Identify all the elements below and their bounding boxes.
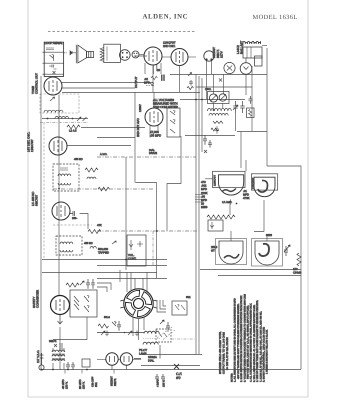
svg-text:250: 250	[72, 217, 77, 220]
tube socket V1	[120, 50, 131, 61]
svg-text:2ND DET.: 2ND DET.	[163, 44, 176, 48]
tube shield U1 keyhole	[219, 175, 244, 205]
tube shield U2 box	[251, 174, 277, 190]
wire dashdot y231	[97, 230, 200, 232]
wire y127	[81, 127, 145, 129]
junction dots	[58, 99, 214, 261]
svg-text:400 VOLT PAPER AND BODY TYPES: 400 VOLT PAPER AND BODY TYPES UNLESS OTH…	[237, 303, 240, 379]
wire left vertical x41	[40, 76, 42, 369]
svg-text:50L6: 50L6	[104, 316, 110, 319]
wire vertical x126	[125, 157, 127, 270]
svg-text:DRIVE: DRIVE	[149, 152, 157, 155]
wire bus x199	[198, 76, 200, 354]
resistor R5	[85, 168, 98, 172]
wire V6 plate right	[67, 145, 131, 147]
resistor R14 vertical	[297, 253, 301, 266]
trimmer box	[208, 92, 230, 104]
wire bottom bus y369	[41, 369, 301, 371]
oscillator coil L2	[207, 108, 231, 115]
svg-text:MODEL 1636L: MODEL 1636L	[253, 14, 298, 21]
AC plug P1	[39, 353, 44, 370]
volume control box	[127, 235, 146, 266]
wire U4 up	[266, 234, 268, 241]
capacitor at V10	[70, 211, 78, 219]
wire drops from V3 V4	[145, 63, 224, 99]
tube V4 6SQ7	[162, 49, 196, 66]
label cluster heater string	[139, 348, 157, 363]
dial lamp V13	[118, 353, 141, 370]
dial cord dashed diagonals	[157, 327, 175, 340]
label stubs	[65, 370, 114, 374]
svg-text:455 KC: 455 KC	[84, 242, 93, 245]
wire U3 up	[230, 231, 232, 241]
svg-text:CONTROL OUT: CONTROL OUT	[35, 73, 39, 94]
svg-text:117 V.A.C.: 117 V.A.C.	[36, 350, 40, 363]
wire dashdot vertical x153	[152, 231, 154, 266]
IF transformer box IF1	[53, 164, 79, 191]
svg-text:RECT.: RECT.	[114, 378, 117, 386]
arrows on row	[77, 117, 87, 121]
svg-text:L2 4.5: L2 4.5	[69, 130, 77, 133]
wire jog 135-157	[136, 183, 157, 279]
svg-text:.05 MFD: .05 MFD	[150, 133, 161, 137]
labels power	[62, 379, 86, 389]
svg-text:LOOP AERIAL: LOOP AERIAL	[45, 41, 64, 45]
svg-text:150 V.: 150 V.	[163, 379, 166, 387]
wire U2 down	[254, 200, 264, 232]
tube V5 rectifier small	[204, 51, 214, 74]
output transformer T1 box	[104, 44, 121, 62]
tube V9 1st audio	[44, 77, 62, 95]
svg-text:4 MFD: 4 MFD	[157, 379, 160, 387]
coil L8	[143, 342, 158, 344]
filter choke L7	[144, 331, 159, 333]
svg-text:150 V.: 150 V.	[66, 381, 69, 389]
tube socket V2	[132, 51, 139, 58]
svg-text:12SA7GT: 12SA7GT	[30, 139, 34, 152]
junction dots power	[41, 369, 88, 371]
tube V11 beat osc	[51, 296, 70, 315]
speaker SP1	[71, 45, 94, 64]
svg-text:150 V.: 150 V.	[83, 381, 86, 389]
svg-text:B+ 105 V. AT 50 MA. DRAIN: B+ 105 V. AT 50 MA. DRAIN	[226, 337, 229, 370]
heater row arrows	[97, 331, 160, 359]
capacitor C1	[64, 52, 67, 54]
wires into socket	[127, 272, 147, 340]
dashdot y339	[171, 338, 196, 340]
mid components below V3	[146, 65, 164, 87]
box around U3	[216, 239, 247, 265]
tube shield U2 keyhole	[254, 177, 275, 197]
wire V11 to bus	[59, 327, 61, 370]
svg-text:6SK7GT: 6SK7GT	[35, 195, 39, 206]
dashed vertical left x44	[43, 123, 45, 259]
resistor R7 osc	[211, 128, 218, 131]
brace for color code	[262, 355, 264, 364]
cluster below V4	[187, 73, 193, 90]
svg-text:6. USE OF OTHER TUBES MAY CAUS: 6. USE OF OTHER TUBES MAY CAUSE DAMAGE T…	[256, 300, 259, 382]
wires osc to keyholes	[236, 113, 268, 168]
capacitor right	[284, 246, 288, 256]
svg-text:OUTPUT: OUTPUT	[134, 76, 138, 88]
wire into U1 box	[205, 160, 246, 179]
wire bus y339	[53, 317, 87, 340]
padder caps C9 C10	[233, 101, 245, 113]
wire multi bus x196-203	[195, 74, 197, 354]
pot arrow	[80, 281, 84, 285]
svg-text:2ND DET AVC: 2ND DET AVC	[136, 118, 140, 137]
wire V11 down arrow	[58, 315, 63, 325]
dashed link y225	[53, 224, 92, 226]
wire V6 top to comb	[245, 58, 247, 63]
svg-text:OSC.: OSC.	[205, 88, 212, 91]
tube V6 ballast	[240, 63, 252, 95]
coil L5	[87, 177, 96, 179]
wire bus y265	[97, 265, 167, 267]
bus ticks	[195, 195, 203, 203]
wire y188	[53, 188, 153, 190]
junction dots under U1	[236, 203, 238, 205]
IF transformer box IF2	[56, 236, 82, 255]
box fuse	[82, 359, 90, 367]
label cluster right of V7	[150, 98, 178, 137]
label vol	[98, 247, 137, 261]
svg-text:RECT.: RECT.	[49, 340, 57, 343]
wire top bus y74	[170, 74, 267, 76]
wire right elbow to x301	[267, 166, 301, 369]
power transformer T2	[52, 343, 65, 369]
loop antenna box L1	[43, 42, 64, 76]
wire ballast to right bus	[262, 45, 267, 47]
wire staircase right	[167, 136, 181, 231]
wire bus y92	[62, 92, 200, 94]
filter caps C20	[66, 362, 75, 370]
wire y87	[196, 86, 252, 88]
coil primary L3	[44, 110, 63, 112]
label cluster under V3	[134, 68, 161, 88]
capacitor C11	[249, 96, 253, 104]
wire V9 right lower	[62, 87, 135, 89]
svg-text:GT: GT	[211, 249, 215, 253]
wire socket to V3	[139, 54, 144, 56]
resistor R6	[98, 187, 109, 191]
svg-text:470K: 470K	[243, 196, 250, 200]
caps cluster	[86, 279, 95, 289]
svg-text:ALDEN, INC: ALDEN, INC	[143, 14, 189, 21]
label vertical 6SA7	[212, 47, 224, 58]
wire bus y269	[200, 269, 301, 271]
label between U1 U2	[243, 189, 250, 200]
svg-text:BALLAST: BALLAST	[240, 41, 244, 54]
box around U4	[252, 239, 283, 267]
svg-text:CONT.: CONT.	[128, 257, 137, 261]
svg-text:1. ALL RESISTORS ARE 1/2 WATT: 1. ALL RESISTORS ARE 1/2 WATT AND IN OHM…	[234, 298, 237, 382]
socket S1 octal	[120, 289, 157, 318]
label line cord	[236, 41, 244, 54]
wire row y118.5	[42, 118, 88, 120]
wire arrow to speaker	[70, 51, 76, 55]
switch box SW1	[70, 290, 97, 317]
output tube U4 keyhole	[255, 241, 279, 265]
NOTES block rotated	[231, 294, 269, 382]
trimmer cap TC1	[209, 94, 226, 108]
wire V10 right	[80, 214, 89, 230]
scattered tiny labels	[72, 88, 272, 319]
dotted link under choke	[143, 338, 161, 340]
dashdot tuning link	[40, 122, 88, 124]
svg-text:12SK7GT: 12SK7GT	[214, 175, 217, 186]
pilot lamp circle	[224, 62, 235, 73]
x mark on wire	[219, 79, 222, 82]
svg-text:LAMP: LAMP	[139, 352, 147, 356]
label cluster left of U1	[201, 180, 208, 209]
caps bottom labels	[155, 374, 165, 382]
svg-text:PER VOLT METER. LINE AT 117 V.: PER VOLT METER. LINE AT 117 V.A.C., NO S…	[247, 305, 250, 379]
svg-text:12SK7: 12SK7	[139, 104, 142, 112]
nested L wires into socket left	[97, 270, 120, 292]
wire vertical x135	[134, 92, 136, 183]
pot arrow	[112, 241, 116, 244]
svg-text:3. VOLTAGES TAKEN FROM SOCKET: 3. VOLTAGES TAKEN FROM SOCKET TERMINALS …	[243, 294, 246, 382]
label R14	[293, 267, 302, 275]
svg-text:4. ALL COIL RESISTANCES MEASUR: 4. ALL COIL RESISTANCES MEASURED IN OHMS…	[250, 303, 253, 382]
output tube U3 keyhole	[219, 241, 243, 264]
svg-text:12SQ7GT: 12SQ7GT	[252, 177, 255, 189]
svg-text:455 KC: 455 KC	[74, 158, 83, 161]
svg-text:TAPPED: TAPPED	[98, 251, 109, 255]
resistor R2	[67, 125, 80, 129]
wire y99 osc	[180, 99, 245, 101]
relay box K1	[172, 301, 187, 315]
svg-text:SW.: SW.	[186, 296, 191, 299]
bottom left comp row x97-122 y320-330	[98, 321, 121, 331]
X fuse mark	[174, 364, 179, 369]
wire bus y275	[218, 275, 301, 277]
junction dots row	[47, 118, 74, 120]
wire right vertical x267	[266, 48, 268, 166]
vertical labels left of notes	[219, 331, 229, 374]
tube V10 6SQ7	[52, 202, 70, 220]
output transformer T1 teeth	[100, 48, 104, 62]
coil L6	[90, 247, 96, 249]
svg-text:35Z5: 35Z5	[266, 234, 272, 237]
tube V8 6SK7 RF	[49, 137, 67, 155]
cap cluster mid bottom	[156, 320, 171, 342]
svg-text:OHMS: OHMS	[293, 271, 302, 275]
wire x252 down	[251, 66, 253, 119]
svg-text:20: 20	[157, 68, 161, 72]
wire y135.5	[185, 135, 235, 137]
svg-text:CONVERTER: CONVERTER	[36, 290, 40, 308]
dial pointer label	[149, 149, 157, 155]
wire bus x202	[201, 78, 203, 152]
coil L4 on row	[55, 116, 69, 118]
tube V3 6K6 output	[134, 47, 162, 65]
wire y137	[97, 137, 135, 139]
gang arrow	[50, 97, 55, 101]
svg-text:117V: 117V	[220, 51, 224, 58]
wire bus y259	[42, 259, 167, 261]
wire top dashed bus	[48, 31, 196, 33]
band switch box SW2	[167, 108, 180, 137]
wire V7 grid up	[153, 92, 155, 108]
resistor R12 long	[207, 215, 235, 219]
wire avc dashdot y157	[97, 156, 196, 158]
svg-text:1 GREEN 2 BROWN 3 YELLOW: 1 GREEN 2 BROWN 3 YELLOW 4 BLACK	[266, 329, 269, 374]
label left of U3	[211, 245, 218, 253]
pot arrow right	[284, 245, 290, 252]
resistor R16	[66, 283, 79, 287]
osc section components	[213, 121, 223, 134]
labels power extra	[49, 340, 98, 387]
svg-text:DIAL: DIAL	[148, 359, 155, 363]
caps cluster osc left	[203, 135, 212, 153]
wire bus y278	[97, 278, 167, 280]
tube shield U1 box	[213, 171, 246, 187]
svg-text:5. DIAL LAMPS MAZDA NO. 47, 6-: 5. DIAL LAMPS MAZDA NO. 47, 6-8 VOLT .15…	[253, 304, 256, 382]
svg-text:MFD: MFD	[144, 80, 150, 84]
tuning gang dashed box	[40, 94, 79, 113]
wire vertical x59	[58, 95, 60, 296]
V7 bottom drops	[150, 126, 158, 138]
wires V9 right	[62, 82, 153, 84]
svg-text:MEG: MEG	[201, 205, 207, 209]
wire bus y354	[141, 354, 202, 356]
svg-text:2. BAND SWITCH SHOWN IN COUNTE: 2. BAND SWITCH SHOWN IN COUNTER-CLOCKWIS…	[240, 295, 243, 382]
svg-text:6'0: 6'0	[176, 376, 181, 380]
svg-text:NOTES:: NOTES:	[231, 373, 234, 382]
svg-text:7. ALIGN I.F. AT 455 KC., R.F.: 7. ALIGN I.F. AT 455 KC., R.F. AND OSC. …	[259, 311, 262, 382]
nested corner wires	[157, 300, 166, 312]
svg-text:I.F. AMP.: I.F. AMP.	[222, 201, 232, 204]
box R12	[208, 220, 223, 231]
wire bus y272	[42, 272, 157, 274]
svg-text:A.V.C.: A.V.C.	[100, 153, 108, 156]
wire bus y365	[141, 365, 200, 367]
rect tube V12	[97, 353, 118, 370]
svg-text:47K: 47K	[97, 224, 102, 227]
osc grid resistor box R4	[247, 108, 255, 118]
ballast resistor comb R30	[243, 41, 262, 66]
wire U1 to R12	[229, 204, 231, 215]
tube V7 6SK7 IF	[145, 108, 163, 126]
svg-text:SW.: SW.	[95, 382, 98, 387]
resistor R8	[88, 230, 101, 234]
svg-text:8. SAFETY TONE CONTROL, LEAD C: 8. SAFETY TONE CONTROL, LEAD COLOR CODE:	[263, 327, 266, 382]
